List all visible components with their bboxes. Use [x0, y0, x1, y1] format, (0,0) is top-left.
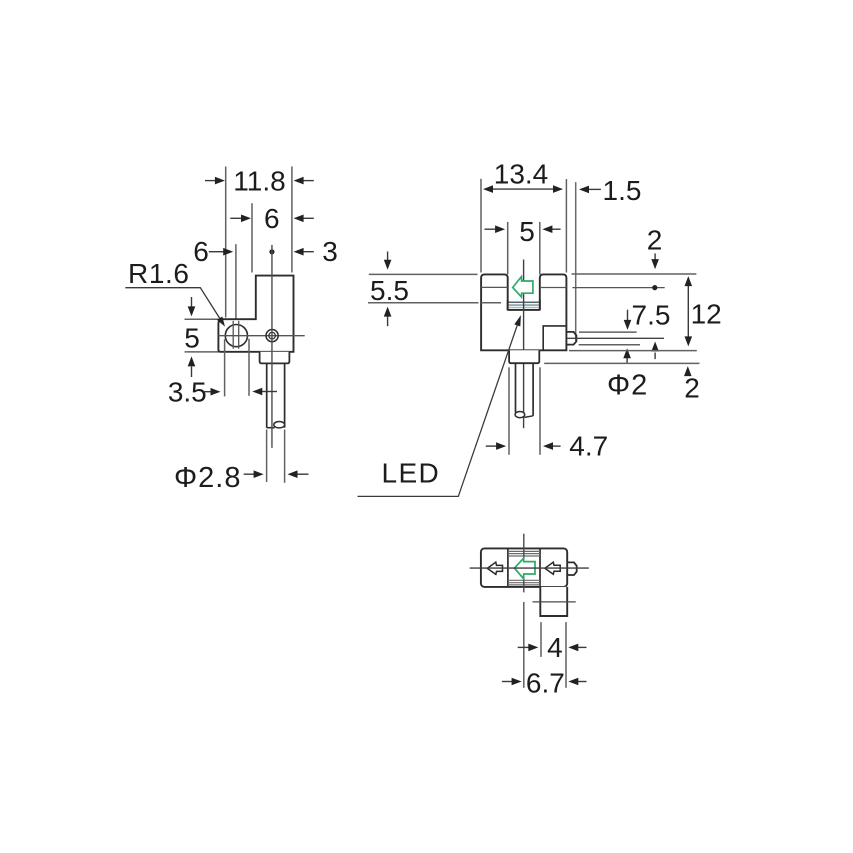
- wire: base bottom extension line right: [544, 362, 699, 364]
- svg-text:R1.6: R1.6: [128, 258, 190, 289]
- terminal base (front): [260, 352, 290, 364]
- wire: vertical centerline bottom: [523, 602, 525, 688]
- wire: body bottom extension line right: [569, 350, 697, 352]
- dimension 4.7 right arrow: [552, 445, 561, 447]
- svg-text:6: 6: [264, 203, 280, 234]
- wire: extension line right of 11.8/6/3: [291, 167, 293, 273]
- dimension phi2.8 left arrow: [244, 473, 255, 475]
- wire: 5.5 extension line bottom: [368, 302, 479, 304]
- pin lead (front): [266, 363, 268, 427]
- wire: 4.7 extension line right: [539, 367, 541, 455]
- svg-text:4: 4: [547, 632, 563, 663]
- dimension 5.5 bottom arrow: [387, 316, 389, 326]
- dimension 6 left arrow: [230, 217, 241, 219]
- wire: optical axis line left arm: [481, 286, 508, 288]
- nub (side): [567, 332, 577, 345]
- wire: 5.5 extension line top: [369, 273, 478, 275]
- svg-text:1.5: 1.5: [603, 175, 642, 206]
- svg-text:LED: LED: [382, 458, 441, 489]
- wire: body top extension line right: [572, 273, 697, 275]
- dimension 3 arrow: [303, 251, 314, 253]
- svg-text:3.5: 3.5: [168, 377, 207, 408]
- wire: nub top extension line: [579, 331, 637, 333]
- wire: 4.7 extension line left: [508, 367, 510, 455]
- svg-text:6: 6: [193, 236, 209, 267]
- wire: pin centerline: [271, 245, 273, 448]
- boss rectangle: [543, 326, 566, 350]
- base (side): [509, 350, 539, 363]
- dimension 5 top arrow: [191, 297, 193, 307]
- svg-text:5.5: 5.5: [370, 275, 409, 306]
- element block in slot: [509, 302, 540, 310]
- dimension 5 left arrow: [485, 228, 497, 230]
- wire: slot projection line left: [232, 321, 234, 349]
- wire: foot cross line: [533, 601, 576, 603]
- wire: slot wall line right: [539, 548, 541, 587]
- body outline (front): [218, 276, 293, 352]
- wire: LED leader: [358, 319, 520, 497]
- dimension 7.5 arrow (up at nub centerline): [654, 353, 656, 360]
- screw hole outer circle: [266, 330, 278, 342]
- svg-text:2: 2: [684, 373, 700, 404]
- node: axis reference dot: [652, 285, 657, 290]
- wire: slot extension line right: [539, 222, 541, 275]
- dimension 6.7 left arrow: [502, 681, 513, 683]
- dimension 5 bottom arrow: [191, 367, 193, 378]
- pin lead (side): [515, 363, 517, 412]
- svg-text:4.7: 4.7: [569, 430, 608, 461]
- wire: slot extension line left: [507, 222, 509, 275]
- window hatch top: [508, 550, 540, 552]
- wire: vertical centerline top: [523, 534, 525, 593]
- nub (bottom): [567, 562, 577, 575]
- svg-text:12: 12: [691, 299, 722, 330]
- dimension 6 (pin offset) arrow: [209, 251, 224, 253]
- dimension 5 right arrow: [552, 228, 561, 230]
- dimension 3.5 left arrow: [204, 391, 212, 393]
- wire: 3.5 extension line left: [224, 339, 226, 396]
- wire: extension line left of 11.8: [225, 167, 227, 318]
- svg-text:Φ2: Φ2: [607, 370, 648, 402]
- svg-text:5: 5: [519, 216, 535, 247]
- wire: slot wall left lower: [507, 300, 509, 310]
- dimension 6 right arrow: [303, 217, 314, 219]
- LED green arrow: [513, 277, 533, 297]
- dimension phi2 up arrow: [626, 358, 628, 363]
- svg-text:3: 3: [322, 236, 338, 267]
- svg-text:11.8: 11.8: [233, 166, 285, 197]
- svg-text:7.5: 7.5: [632, 300, 671, 331]
- svg-text:Φ2.8: Φ2.8: [174, 462, 241, 494]
- wire: slot projection line right: [238, 321, 240, 349]
- body outline (side) U shape: [481, 274, 566, 350]
- wire: extension line top of 5: [185, 318, 223, 320]
- screw hole inner circle: [269, 332, 276, 339]
- wire: 3.5 extension line right: [248, 339, 250, 396]
- wire: nub bottom extension line: [579, 344, 640, 346]
- dimension 5.5 top arrow: [387, 252, 389, 261]
- dimension 11.8 left arrow: [205, 180, 216, 182]
- wire: slot wall right lower: [539, 300, 541, 310]
- node: pin centerline dot: [269, 249, 274, 254]
- svg-text:6.7: 6.7: [526, 667, 565, 698]
- wire: extension line bottom of 5: [185, 351, 220, 353]
- wire: horizontal centerline: [218, 335, 304, 337]
- foot (bottom): [540, 587, 567, 616]
- dimension 4 right arrow: [578, 646, 587, 648]
- wire: 1.5 extension line: [575, 182, 577, 341]
- wire: 13.4 extension line right: [565, 179, 567, 272]
- dimension phi2 down arrow: [627, 310, 629, 321]
- wire: phi2.8 extension line right: [284, 430, 286, 483]
- dimension 1.5 arrow: [589, 188, 601, 190]
- dimension 13.4 line with arrows: [490, 188, 557, 190]
- dimension 6.7 right arrow: [578, 681, 587, 683]
- wire: optical axis line right arm: [540, 287, 567, 289]
- wire: R1.6 leader: [125, 288, 222, 322]
- svg-text:2: 2: [647, 225, 663, 256]
- wire: optical axis centerline vertical: [523, 260, 525, 302]
- wire: tick extension line at x=236: [235, 244, 237, 319]
- pin break ellipse: [274, 422, 285, 428]
- wire: horizontal centerline: [470, 567, 589, 569]
- svg-text:5: 5: [184, 322, 200, 353]
- dimension phi2.8 right arrow: [297, 473, 309, 475]
- optical axis arrow left (black): [487, 562, 502, 574]
- wire: 4/6.7 extension line right: [565, 622, 567, 688]
- dimension 3.5 right arrow: [262, 391, 278, 393]
- wire: extension line for 6 (column left): [251, 203, 253, 272]
- wire: 13.4 extension line left: [480, 179, 482, 273]
- dimension 4.7 left arrow: [486, 445, 497, 447]
- wire: nub centerline: [567, 337, 664, 339]
- wire: optical axis line right extension with dot: [572, 287, 664, 289]
- optical hole circle: [225, 325, 247, 347]
- wire: phi2.8 extension line left: [266, 430, 268, 483]
- dimension 2 (bottom) arrow: [687, 372, 689, 375]
- body outline (bottom): [481, 548, 567, 587]
- wire: slot wall line left: [507, 548, 509, 587]
- dimension 11.8 right arrow: [303, 180, 314, 182]
- dimension 4 left arrow: [518, 646, 529, 648]
- dimension 12 line with arrows: [687, 283, 689, 341]
- wire: 4 extension line left: [540, 622, 542, 657]
- svg-text:13.4: 13.4: [494, 159, 549, 190]
- dimension 2 (top) arrow: [654, 253, 656, 260]
- window hatch bottom: [508, 579, 540, 581]
- pin break ellipse (side): [515, 412, 525, 418]
- LED green arrow (bottom): [515, 558, 536, 578]
- optical axis arrow right (black): [545, 562, 560, 574]
- wire: 5.5 extension inside body: [481, 302, 501, 304]
